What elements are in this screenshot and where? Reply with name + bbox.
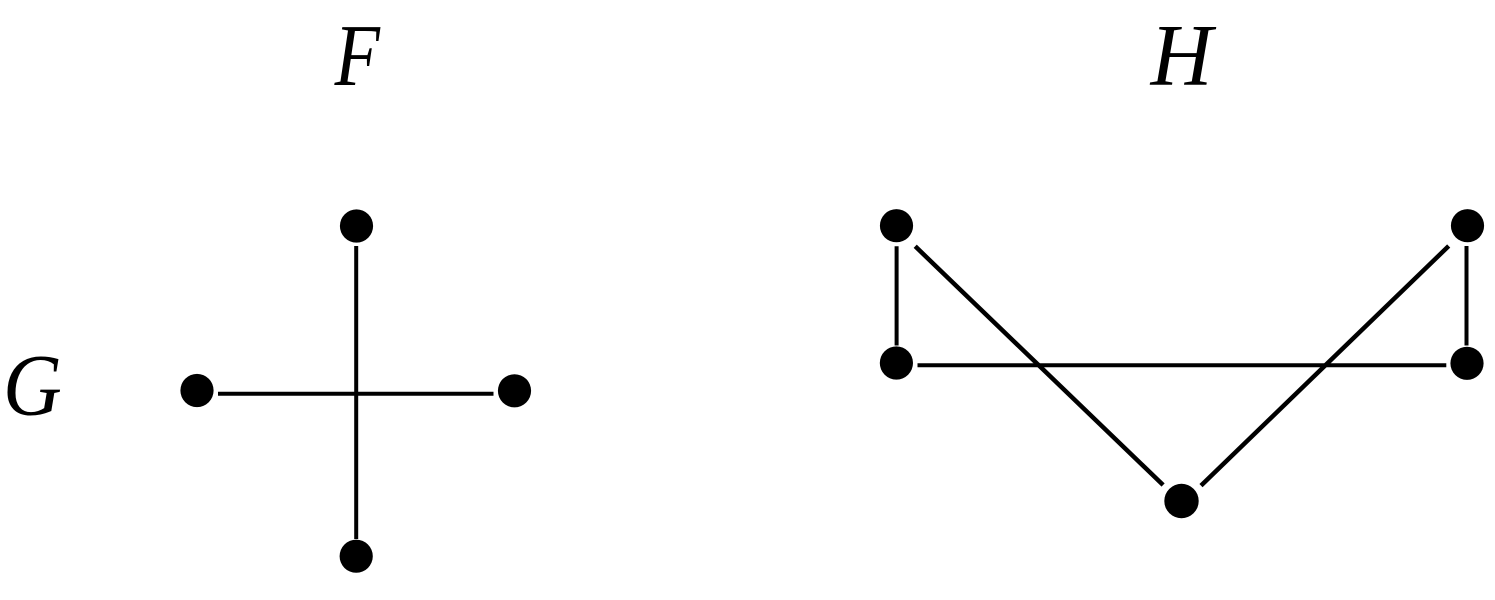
node: H left-middle vertex — [880, 346, 913, 379]
node: left graph bottom vertex — [340, 540, 373, 573]
svg-text:F: F — [334, 7, 381, 104]
svg-text:G: G — [3, 338, 62, 434]
wire: H edge TL-BC diagonal — [915, 246, 1163, 485]
label G (left of left graph) — [3, 338, 62, 434]
node: left graph left vertex — [180, 374, 213, 407]
wire: H edge LM-RM horizontal — [918, 363, 1447, 367]
node: H bottom-center vertex — [1164, 484, 1198, 518]
node: H right-middle vertex — [1450, 347, 1483, 380]
wire: left graph horizontal edge left-right — [218, 392, 494, 396]
node: H top-right vertex — [1451, 209, 1484, 242]
wire: left graph vertical edge top-bottom — [354, 246, 358, 539]
node: H top-left vertex — [880, 209, 913, 242]
svg-text:H: H — [1150, 7, 1217, 104]
node: left graph right vertex — [498, 374, 531, 407]
wire: H edge BC-TR diagonal — [1201, 246, 1449, 486]
node: left graph top vertex — [340, 209, 373, 242]
wire: H edge TL-LM vertical — [895, 246, 899, 345]
label H (right graph title) — [1150, 7, 1217, 104]
label F (left graph title) — [334, 7, 381, 104]
wire: H edge TR-RM vertical — [1465, 246, 1469, 346]
